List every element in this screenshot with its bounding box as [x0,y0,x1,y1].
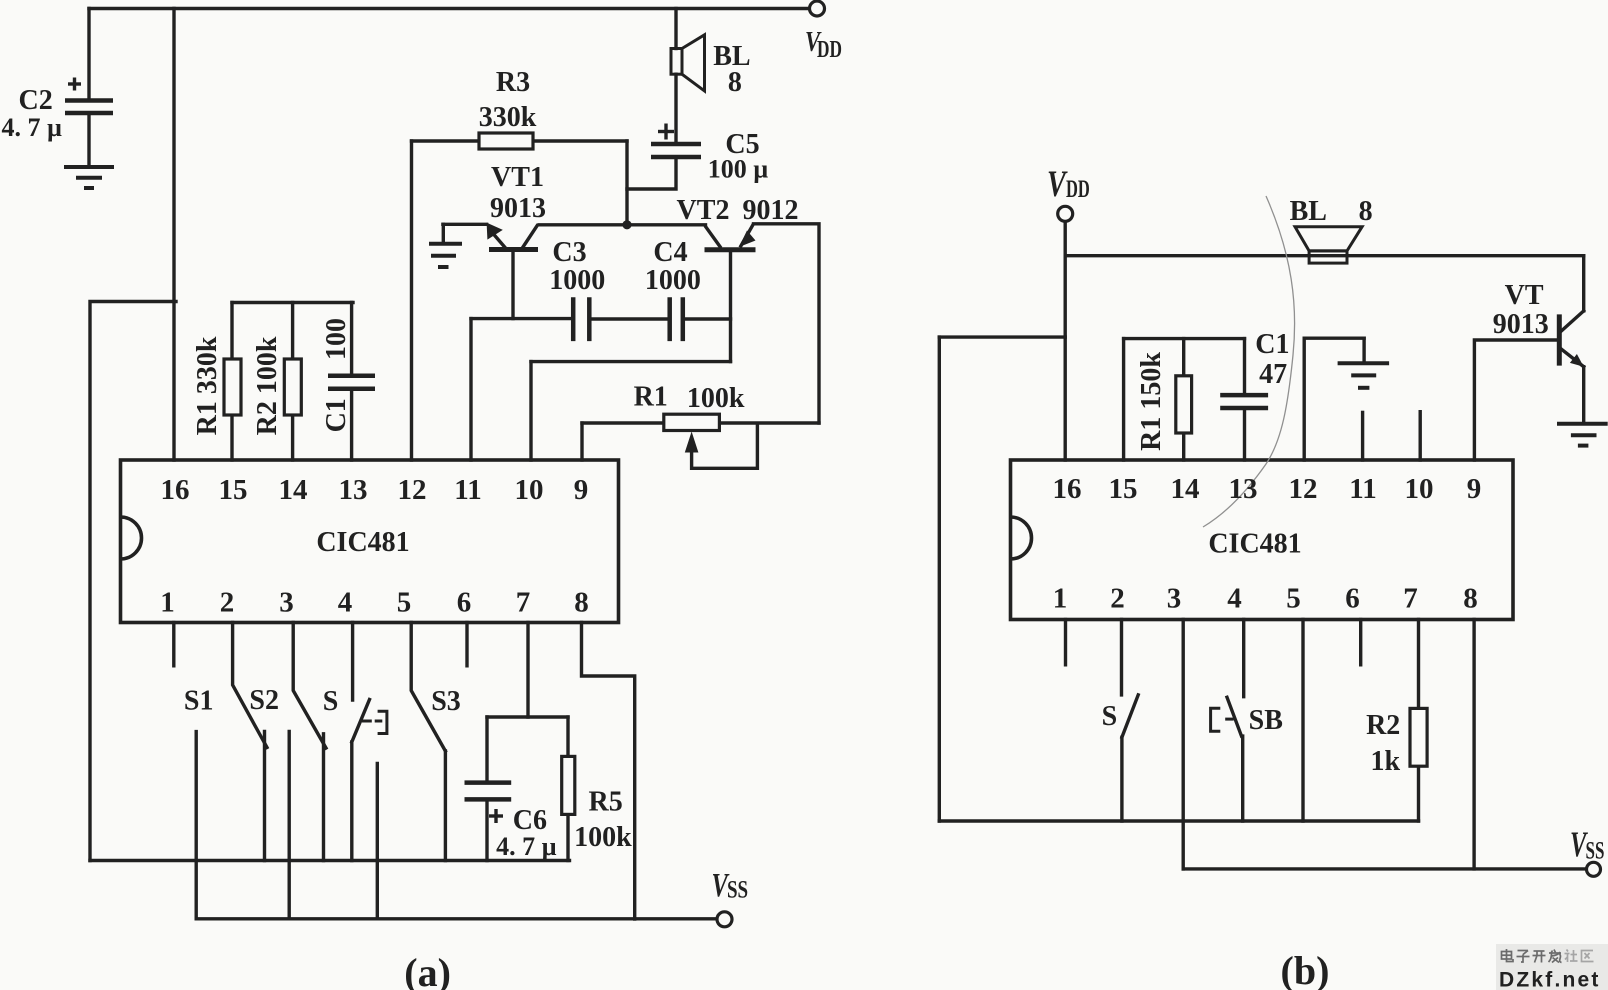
svg-text:DD: DD [1066,175,1090,203]
svg-text:4. 7 µ: 4. 7 µ [2,113,63,142]
svg-text:5: 5 [397,587,412,619]
svg-text:1: 1 [160,587,175,619]
svg-text:C1: C1 [321,398,352,432]
svg-text:12: 12 [398,474,427,506]
svg-text:VT1: VT1 [491,162,544,193]
svg-text:14: 14 [279,474,308,506]
svg-text:CIC481: CIC481 [316,527,409,558]
svg-text:C4: C4 [653,237,687,268]
svg-text:1000: 1000 [549,265,605,296]
svg-text:SS: SS [727,875,748,903]
svg-text:1000: 1000 [645,265,701,296]
svg-text:1: 1 [1053,583,1068,615]
svg-text:12: 12 [1289,473,1318,505]
svg-text:2: 2 [1110,583,1125,615]
svg-text:13: 13 [339,474,368,506]
svg-text:7: 7 [516,587,531,619]
svg-text:16: 16 [161,474,190,506]
svg-text:S3: S3 [431,686,461,717]
svg-text:8: 8 [574,587,589,619]
svg-text:8: 8 [1359,196,1373,227]
svg-text:R2 100k: R2 100k [252,336,283,435]
svg-text:2: 2 [220,587,235,619]
svg-text:C1: C1 [1255,329,1289,360]
svg-text:4. 7 µ: 4. 7 µ [496,832,557,861]
svg-text:3: 3 [1167,583,1182,615]
svg-text:S: S [323,686,339,717]
svg-text:R5: R5 [588,787,622,818]
svg-text:VT2: VT2 [677,195,730,226]
svg-text:SB: SB [1249,705,1283,736]
svg-text:7: 7 [1403,583,1418,615]
svg-text:4: 4 [338,587,353,619]
svg-text:S1: S1 [184,686,214,717]
svg-text:11: 11 [454,474,481,506]
svg-text:SS: SS [1586,836,1605,864]
svg-text:V: V [1047,164,1068,205]
svg-text:16: 16 [1053,473,1082,505]
svg-text:100k: 100k [574,822,632,853]
svg-text:5: 5 [1286,583,1301,615]
svg-text:10: 10 [515,474,544,506]
svg-text:S: S [1102,701,1118,732]
svg-text:R3: R3 [496,67,530,98]
svg-text:100k: 100k [687,383,745,414]
svg-text:1k: 1k [1371,746,1401,777]
svg-text:DD: DD [817,35,842,63]
svg-text:VT: VT [1505,280,1544,311]
svg-text:13: 13 [1229,473,1258,505]
svg-text:(b): (b) [1281,948,1330,990]
svg-text:14: 14 [1171,473,1200,505]
svg-text:47: 47 [1259,359,1287,390]
svg-text:BL: BL [1290,196,1327,227]
svg-text:15: 15 [219,474,248,506]
svg-text:S2: S2 [249,685,279,716]
svg-text:4: 4 [1227,583,1242,615]
svg-text:9013: 9013 [1493,309,1549,340]
svg-text:9: 9 [1467,473,1482,505]
svg-text:330k: 330k [479,102,537,133]
svg-text:R1 330k: R1 330k [192,336,223,435]
svg-text:R1: R1 [634,382,668,413]
svg-text:8: 8 [1463,583,1478,615]
svg-text:C3: C3 [552,237,586,268]
svg-text:100 µ: 100 µ [708,155,769,184]
svg-text:9013: 9013 [490,193,546,224]
svg-text:CIC481: CIC481 [1208,529,1301,560]
svg-text:(a): (a) [404,950,451,990]
svg-text:100: 100 [321,318,352,360]
svg-text:DZkf.net: DZkf.net [1499,969,1601,990]
svg-text:R1 150k: R1 150k [1136,352,1167,451]
svg-text:15: 15 [1109,473,1138,505]
svg-text:9: 9 [574,474,589,506]
svg-text:11: 11 [1349,473,1376,505]
svg-text:C2: C2 [18,85,52,116]
svg-text:8: 8 [728,67,742,98]
svg-text:R2: R2 [1366,710,1400,741]
svg-text:3: 3 [279,587,294,619]
svg-text:6: 6 [1345,583,1360,615]
svg-text:10: 10 [1405,473,1434,505]
svg-text:9012: 9012 [743,195,799,226]
svg-text:6: 6 [457,587,472,619]
